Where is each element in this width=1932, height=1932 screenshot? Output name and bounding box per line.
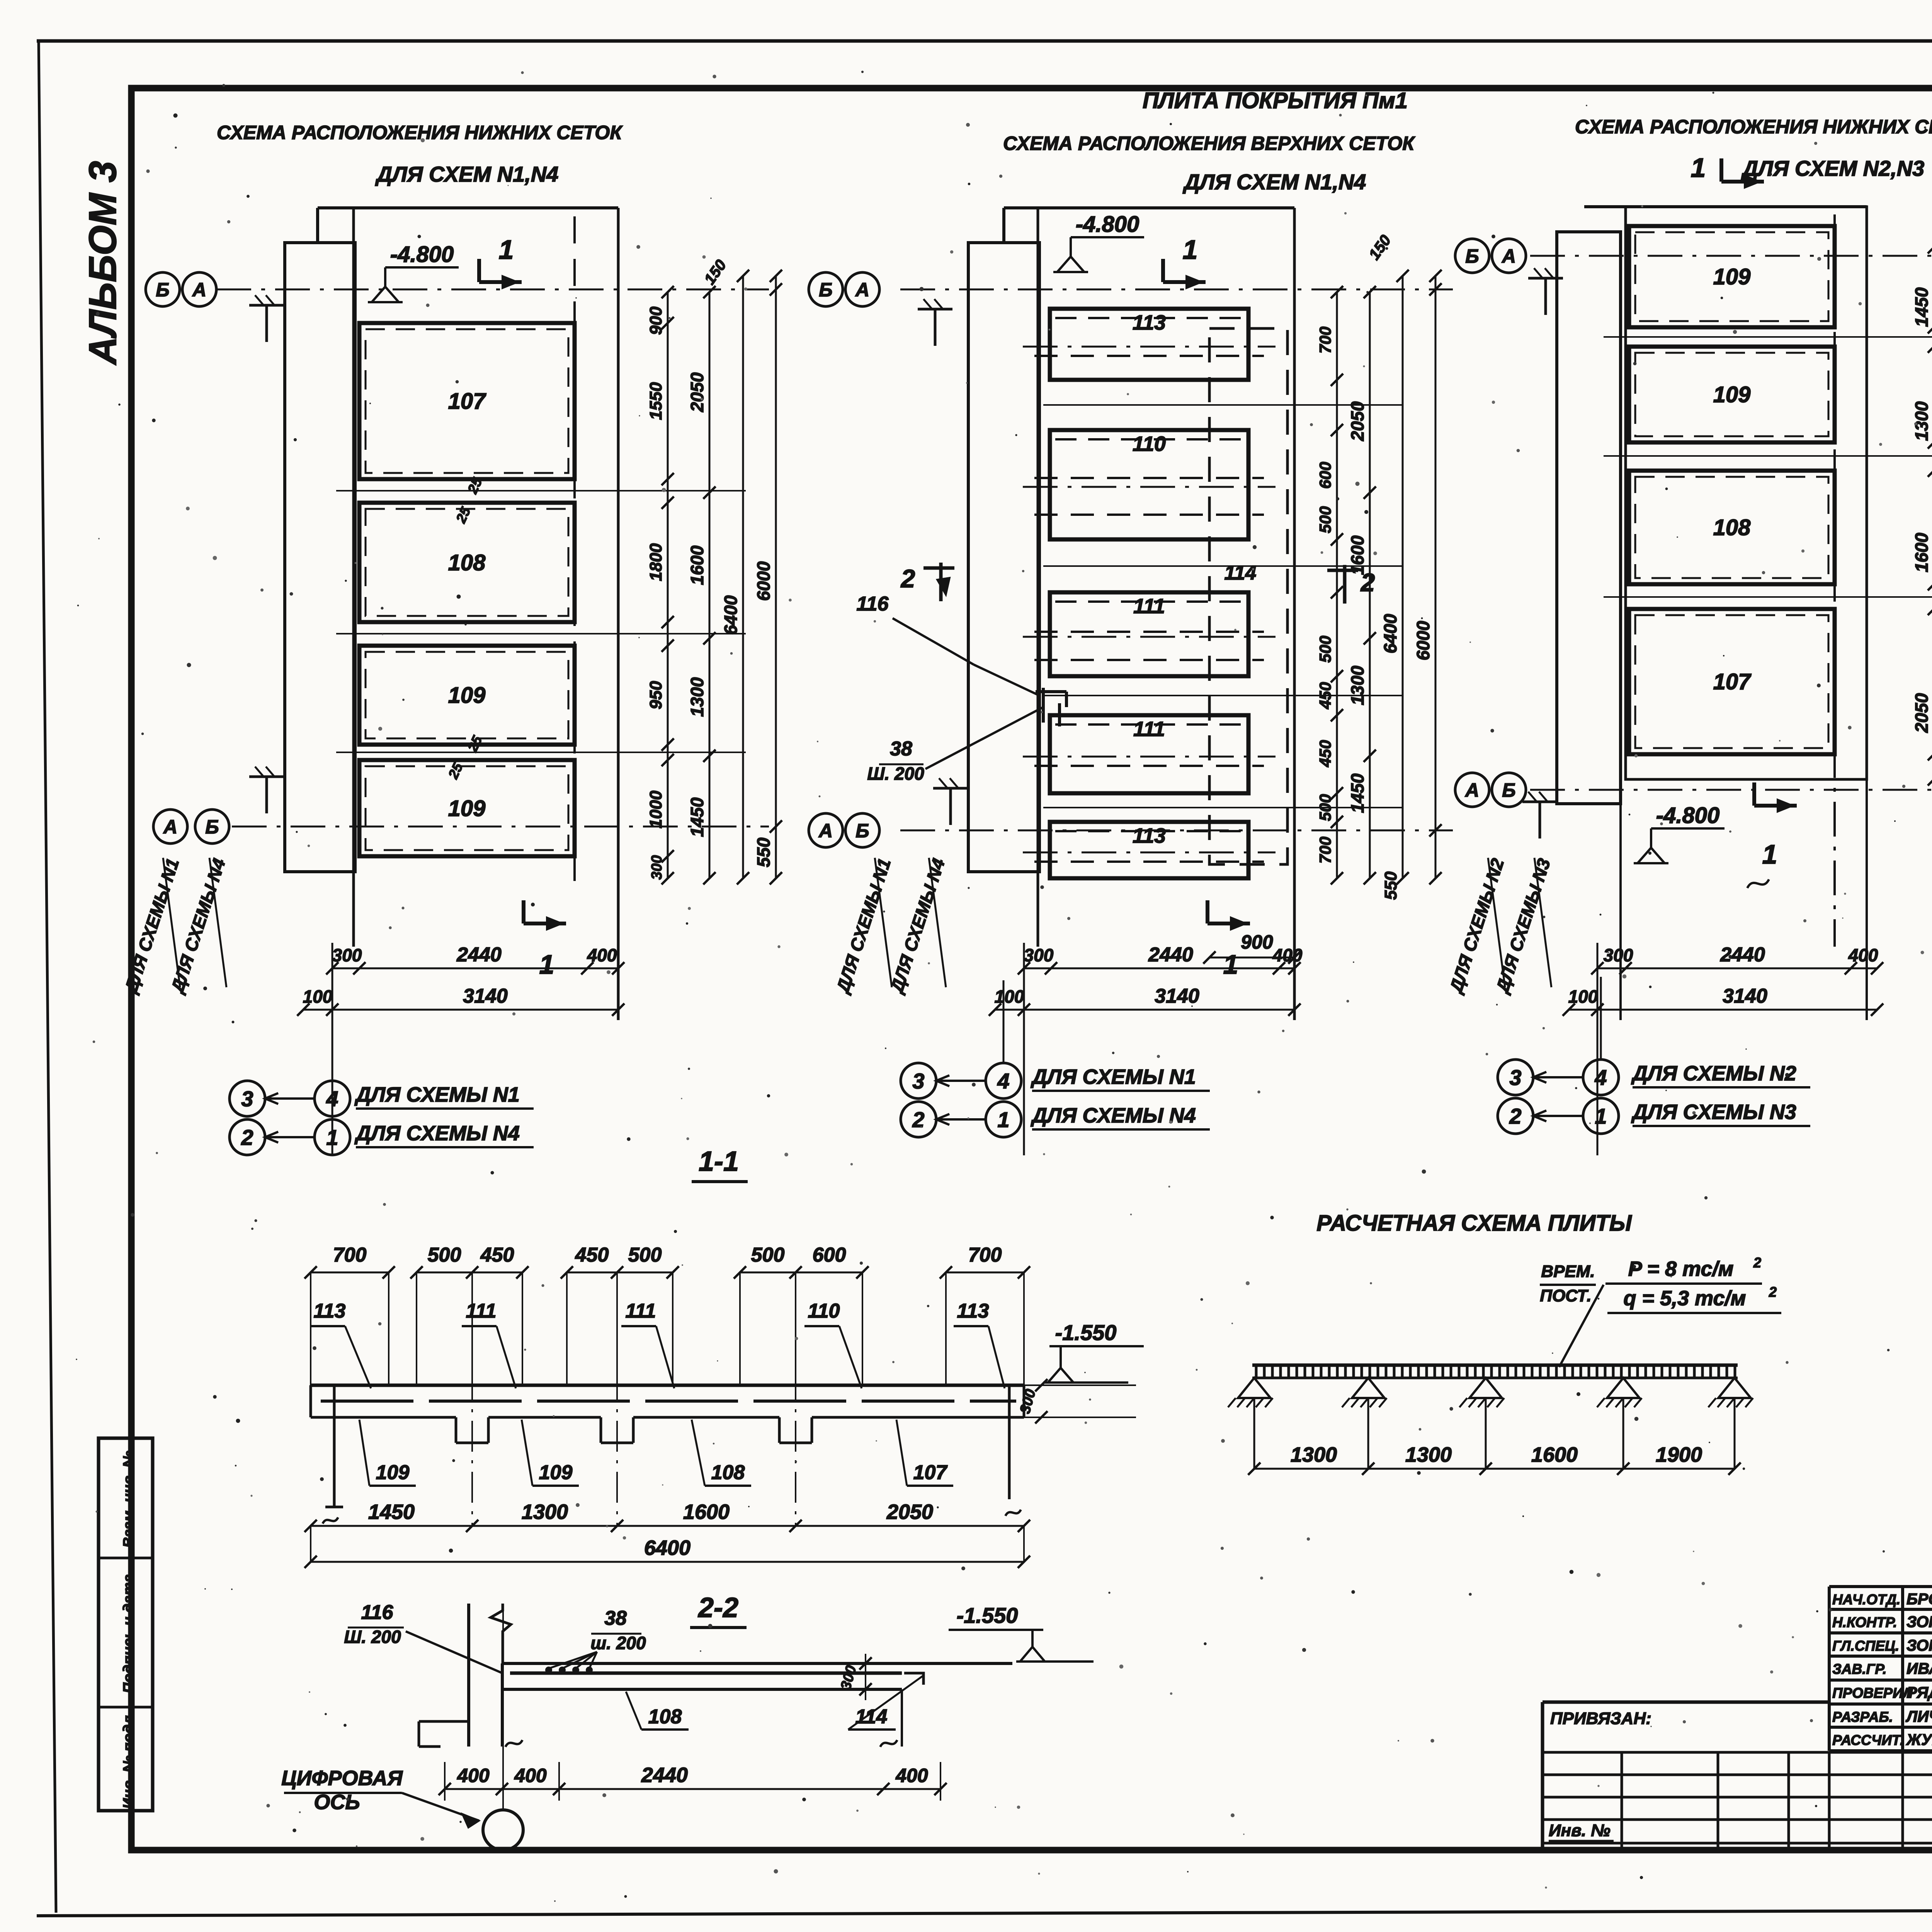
svg-text:ДЛЯ СХЕМ N1,N4: ДЛЯ СХЕМ N1,N4 (375, 162, 559, 186)
svg-text:СХЕМА РАСПОЛОЖЕНИЯ НИЖНИХ СЕТО: СХЕМА РАСПОЛОЖЕНИЯ НИЖНИХ СЕТОК (217, 122, 623, 143)
svg-text:1: 1 (1762, 839, 1777, 869)
svg-text:1: 1 (499, 235, 514, 265)
svg-text:q = 5,3 тс/м: q = 5,3 тс/м (1624, 1287, 1746, 1310)
svg-text:-1.550: -1.550 (1055, 1320, 1117, 1345)
svg-text:1-1: 1-1 (699, 1146, 739, 1177)
svg-text:3: 3 (241, 1087, 253, 1111)
svg-text:2: 2 (912, 1107, 924, 1132)
svg-text:РАСЧЕТНАЯ СХЕМА ПЛИТЫ: РАСЧЕТНАЯ СХЕМА ПЛИТЫ (1316, 1211, 1632, 1236)
svg-text:700: 700 (333, 1244, 367, 1266)
svg-text:3140: 3140 (463, 985, 508, 1007)
svg-text:400: 400 (1848, 945, 1878, 965)
svg-text:500: 500 (1316, 636, 1334, 663)
svg-text:2050: 2050 (1347, 401, 1367, 441)
svg-text:550: 550 (1381, 871, 1400, 900)
svg-text:1: 1 (1183, 235, 1198, 265)
svg-text:113: 113 (1133, 824, 1166, 847)
svg-text:38: 38 (890, 738, 912, 760)
svg-text:Ш. 200: Ш. 200 (344, 1627, 401, 1647)
svg-text:108: 108 (448, 550, 486, 575)
svg-text:1600: 1600 (1912, 532, 1932, 572)
svg-text:600: 600 (1316, 462, 1334, 489)
svg-text:4: 4 (1594, 1065, 1607, 1090)
svg-text:700: 700 (1316, 837, 1334, 864)
svg-text:400: 400 (895, 1765, 928, 1786)
svg-text:ПОСТ.: ПОСТ. (1540, 1286, 1591, 1305)
svg-text:700: 700 (968, 1244, 1002, 1266)
svg-text:109: 109 (1713, 382, 1751, 407)
svg-text:600: 600 (813, 1244, 846, 1266)
svg-text:100: 100 (995, 986, 1024, 1007)
svg-text:6400: 6400 (721, 595, 741, 635)
svg-text:3: 3 (1509, 1065, 1521, 1090)
svg-text:ДЛЯ СХЕМ N1,N4: ДЛЯ СХЕМ N1,N4 (1183, 170, 1366, 194)
svg-text:108: 108 (1713, 515, 1751, 540)
svg-text:1300: 1300 (1405, 1443, 1452, 1466)
svg-text:300: 300 (1604, 945, 1633, 965)
svg-text:-4.800: -4.800 (1076, 212, 1139, 237)
svg-text:АЛЬБОМ 3: АЛЬБОМ 3 (81, 161, 124, 366)
svg-text:500: 500 (628, 1244, 662, 1266)
svg-text:1: 1 (1595, 1104, 1607, 1128)
svg-text:113: 113 (957, 1300, 989, 1322)
svg-text:116: 116 (857, 593, 889, 615)
svg-text:-4.800: -4.800 (1656, 803, 1719, 828)
svg-text:116: 116 (361, 1601, 394, 1624)
svg-text:А: А (818, 820, 833, 842)
svg-text:1300: 1300 (1347, 665, 1367, 705)
svg-text:2050: 2050 (886, 1500, 933, 1524)
svg-text:РЯДЬКО: РЯДЬКО (1906, 1684, 1932, 1701)
svg-text:109: 109 (376, 1461, 410, 1484)
svg-text:1450: 1450 (368, 1500, 415, 1524)
svg-text:2: 2 (1509, 1104, 1521, 1128)
svg-text:6400: 6400 (1380, 614, 1400, 653)
svg-text:Инв. №: Инв. № (1549, 1821, 1611, 1840)
svg-text:400: 400 (457, 1765, 490, 1786)
svg-text:ИВАНОВА: ИВАНОВА (1906, 1660, 1932, 1677)
svg-text:ДЛЯ СХЕМЫ N1: ДЛЯ СХЕМЫ N1 (354, 1083, 520, 1106)
svg-text:2440: 2440 (1148, 944, 1193, 966)
svg-text:107: 107 (448, 389, 487, 414)
svg-text:ПЛИТА ПОКРЫТИЯ Пм1: ПЛИТА ПОКРЫТИЯ Пм1 (1143, 88, 1408, 113)
svg-text:ДЛЯ СХЕМЫ N4: ДЛЯ СХЕМЫ N4 (354, 1122, 520, 1145)
svg-text:109: 109 (539, 1461, 573, 1484)
svg-text:Б: Б (1465, 245, 1479, 267)
svg-text:113: 113 (1133, 311, 1166, 334)
svg-text:3140: 3140 (1155, 985, 1199, 1007)
svg-text:ПРОВЕРИЛ: ПРОВЕРИЛ (1832, 1685, 1913, 1701)
svg-text:300: 300 (649, 855, 665, 879)
svg-text:P = 8 тс/м: P = 8 тс/м (1628, 1257, 1734, 1281)
svg-text:6000: 6000 (1413, 621, 1433, 660)
svg-text:109: 109 (448, 796, 486, 821)
svg-text:500: 500 (428, 1244, 461, 1266)
svg-text:300: 300 (1024, 945, 1054, 965)
svg-text:450: 450 (1316, 740, 1334, 767)
svg-text:А: А (163, 816, 177, 838)
svg-text:ДЛЯ СХЕМЫ N1: ДЛЯ СХЕМЫ N1 (1031, 1065, 1196, 1088)
svg-text:ЖУРАВЛЕВА: ЖУРАВЛЕВА (1906, 1731, 1932, 1748)
svg-text:950: 950 (646, 681, 665, 709)
svg-text:500: 500 (1316, 506, 1334, 533)
svg-text:107: 107 (1713, 669, 1752, 694)
svg-text:ДЛЯ СХЕМЫ N2: ДЛЯ СХЕМЫ N2 (1631, 1062, 1796, 1085)
svg-text:1600: 1600 (687, 545, 707, 585)
svg-text:450: 450 (480, 1244, 514, 1266)
svg-text:111: 111 (625, 1300, 656, 1322)
svg-text:111: 111 (1133, 595, 1165, 618)
svg-text:РАССЧИТ.: РАССЧИТ. (1832, 1732, 1904, 1748)
svg-text:ЗОРИН: ЗОРИН (1906, 1613, 1932, 1631)
svg-text:700: 700 (1316, 327, 1334, 354)
svg-text:ДЛЯ СХЕМЫ N3: ДЛЯ СХЕМЫ N3 (1631, 1100, 1796, 1124)
svg-text:2440: 2440 (1720, 944, 1765, 966)
svg-text:1600: 1600 (1347, 535, 1367, 575)
svg-text:ПРИВЯЗАН:: ПРИВЯЗАН: (1550, 1709, 1651, 1728)
svg-text:1: 1 (1691, 153, 1706, 183)
svg-text:Б: Б (855, 820, 869, 842)
svg-text:Б: Б (205, 816, 219, 838)
svg-text:2: 2 (1753, 1255, 1761, 1270)
svg-text:НАЧ.ОТД.: НАЧ.ОТД. (1832, 1592, 1900, 1607)
svg-text:1: 1 (539, 949, 554, 980)
svg-text:113: 113 (314, 1300, 346, 1322)
svg-text:4: 4 (997, 1069, 1009, 1093)
svg-text:Инв. № подл.: Инв. № подл. (121, 1711, 137, 1809)
svg-text:6000: 6000 (753, 561, 774, 601)
svg-text:450: 450 (1316, 682, 1334, 709)
svg-text:6400: 6400 (644, 1536, 690, 1560)
svg-text:Ш. 200: Ш. 200 (867, 764, 924, 784)
svg-text:1450: 1450 (1347, 773, 1367, 813)
svg-text:ЛИЧКАТАЯ: ЛИЧКАТАЯ (1905, 1708, 1932, 1725)
svg-text:109: 109 (1713, 264, 1751, 289)
svg-text:111: 111 (466, 1300, 496, 1322)
svg-text:3140: 3140 (1723, 985, 1767, 1007)
svg-text:2050: 2050 (687, 372, 707, 412)
svg-text:А: А (1464, 779, 1479, 801)
svg-text:110: 110 (808, 1300, 840, 1322)
svg-text:ЦИФРОВАЯ: ЦИФРОВАЯ (281, 1767, 403, 1790)
svg-text:109: 109 (448, 683, 486, 708)
svg-text:2050: 2050 (1912, 693, 1932, 733)
svg-text:А: А (192, 279, 206, 301)
svg-text:2: 2 (900, 564, 915, 593)
svg-text:ЗОРИН: ЗОРИН (1906, 1636, 1932, 1654)
svg-text:Б: Б (819, 279, 832, 301)
svg-text:Б: Б (156, 279, 169, 301)
svg-text:900: 900 (1241, 931, 1273, 953)
svg-text:3: 3 (912, 1069, 924, 1093)
svg-text:550: 550 (753, 837, 774, 867)
svg-text:400: 400 (587, 945, 617, 965)
svg-text:100: 100 (1568, 986, 1598, 1007)
svg-text:1: 1 (326, 1125, 338, 1150)
svg-text:Б: Б (1502, 779, 1515, 801)
svg-text:А: А (855, 279, 869, 301)
svg-text:1600: 1600 (1531, 1443, 1578, 1466)
svg-text:110: 110 (1133, 432, 1166, 456)
svg-text:Н.КОНТР.: Н.КОНТР. (1832, 1614, 1897, 1630)
svg-text:ш. 200: ш. 200 (590, 1633, 646, 1653)
svg-text:1450: 1450 (687, 797, 707, 837)
svg-text:111: 111 (1133, 718, 1165, 741)
svg-text:РАЗРАБ.: РАЗРАБ. (1832, 1709, 1893, 1725)
svg-text:ВРЕМ.: ВРЕМ. (1541, 1262, 1595, 1281)
svg-text:900: 900 (646, 306, 665, 335)
svg-text:СХЕМА РАСПОЛОЖЕНИЯ ВЕРХНИХ СЕТ: СХЕМА РАСПОЛОЖЕНИЯ ВЕРХНИХ СЕТОК (1003, 133, 1415, 154)
svg-text:450: 450 (575, 1244, 609, 1266)
svg-text:2: 2 (241, 1125, 253, 1150)
svg-text:1300: 1300 (687, 677, 707, 717)
svg-text:ЗАВ.ГР.: ЗАВ.ГР. (1832, 1661, 1887, 1677)
svg-text:108: 108 (648, 1706, 682, 1728)
svg-text:400: 400 (1272, 945, 1303, 965)
svg-text:2440: 2440 (456, 944, 502, 966)
svg-text:ГЛ.СПЕЦ.: ГЛ.СПЕЦ. (1832, 1638, 1899, 1654)
svg-text:ДЛЯ СХЕМ N2,N3: ДЛЯ СХЕМ N2,N3 (1741, 156, 1925, 180)
svg-text:1600: 1600 (683, 1500, 730, 1524)
svg-text:1: 1 (997, 1107, 1009, 1132)
svg-text:Подпись и дата: Подпись и дата (121, 1574, 137, 1693)
svg-text:1550: 1550 (646, 382, 665, 420)
svg-text:38: 38 (604, 1607, 627, 1629)
svg-text:1800: 1800 (646, 543, 665, 581)
svg-text:1: 1 (1223, 949, 1238, 980)
svg-text:1300: 1300 (1291, 1443, 1337, 1466)
svg-text:114: 114 (1225, 562, 1257, 584)
svg-text:300: 300 (332, 945, 362, 965)
svg-text:-1.550: -1.550 (957, 1603, 1018, 1628)
svg-text:2440: 2440 (641, 1764, 688, 1787)
svg-text:А: А (1501, 245, 1516, 267)
svg-text:СХЕМА РАСПОЛОЖЕНИЯ НИЖНИХ СЕТО: СХЕМА РАСПОЛОЖЕНИЯ НИЖНИХ СЕТОК (1575, 116, 1932, 138)
svg-text:4: 4 (326, 1087, 338, 1111)
svg-text:2-2: 2-2 (697, 1592, 738, 1623)
svg-text:БРОДСКИЙ: БРОДСКИЙ (1906, 1590, 1932, 1608)
svg-text:108: 108 (711, 1461, 745, 1484)
svg-text:Взам. инв. №: Взам. инв. № (121, 1451, 137, 1548)
svg-text:2: 2 (1769, 1284, 1777, 1300)
svg-text:400: 400 (514, 1765, 547, 1786)
svg-text:1300: 1300 (1912, 401, 1932, 441)
svg-text:-4.800: -4.800 (390, 242, 454, 267)
svg-text:100: 100 (303, 986, 333, 1007)
svg-text:1450: 1450 (1912, 287, 1932, 327)
svg-text:1900: 1900 (1656, 1443, 1702, 1466)
svg-text:1300: 1300 (522, 1500, 568, 1524)
svg-text:1000: 1000 (646, 791, 665, 828)
svg-text:500: 500 (1316, 794, 1334, 821)
svg-text:107: 107 (913, 1461, 948, 1484)
svg-text:500: 500 (751, 1244, 785, 1266)
svg-text:114: 114 (855, 1706, 888, 1728)
